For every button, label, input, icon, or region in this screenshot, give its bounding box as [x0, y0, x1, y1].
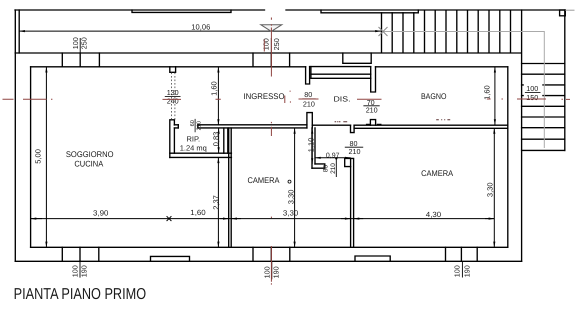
svg-text:1,10: 1,10 [306, 138, 315, 153]
red strike top window label [263, 40, 265, 52]
notch under top wall [170, 67, 176, 73]
svg-text:190: 190 [80, 265, 89, 277]
dimension 1,60 vertical ingresso [217, 67, 219, 125]
svg-text:RIP.: RIP. [186, 135, 200, 144]
svg-text:210: 210 [196, 121, 202, 130]
stub below mid wall [351, 125, 355, 132]
chain arrow left end [31, 218, 42, 220]
svg-text:1.24 mq: 1.24 mq [180, 144, 207, 153]
svg-text:1,60: 1,60 [482, 85, 491, 100]
dashed leader lines rip door 130/240 [171, 73, 175, 120]
gray stair direction line [379, 10, 575, 148]
chain arrows at camera divider [341, 218, 351, 220]
svg-text:DIS.: DIS. [334, 95, 351, 104]
window label 100|250 top mid rotated [262, 38, 282, 53]
svg-text:100: 100 [263, 266, 272, 278]
dis shelf left cap [310, 67, 312, 79]
level triangle marker [261, 25, 282, 32]
top wall window 2 ticks [253, 53, 290, 67]
red-black dash group bagno [436, 119, 450, 121]
dimension 1,60 vertical bagno [494, 67, 496, 125]
camera divider wall [351, 158, 354, 247]
window label 100|250 top left rotated [71, 37, 89, 53]
door label 130/240 [165, 88, 181, 105]
door label 80/210 camera2 door [345, 139, 363, 156]
svg-text:100: 100 [262, 38, 271, 50]
stair window label 100/150 [524, 84, 543, 102]
svg-text:CAMERA: CAMERA [248, 176, 280, 185]
door label 80/210 dis west [302, 90, 315, 108]
red-black dash group door camera [335, 121, 348, 123]
dimension 2,37 vertical [217, 157, 219, 247]
balcony left parapet [15, 10, 19, 53]
svg-text:240: 240 [167, 96, 179, 105]
rip door jamb ticks [178, 125, 198, 128]
svg-text:CAMERA: CAMERA [421, 169, 453, 178]
svg-text:210: 210 [366, 106, 378, 115]
svg-text:PIANTA PIANO PRIMO: PIANTA PIANO PRIMO [14, 286, 147, 303]
door label 60|210 rip rotated [190, 119, 203, 132]
svg-text:1,60: 1,60 [190, 208, 205, 217]
corridor wall v1 [312, 128, 315, 168]
door label 70/210 dis east [363, 98, 379, 115]
balcony recess band right [321, 10, 418, 13]
ingresso door jamb lower [307, 113, 312, 128]
svg-text:BAGNO: BAGNO [421, 92, 447, 101]
svg-text:4,30: 4,30 [426, 210, 441, 219]
chain tick at 169 [167, 216, 172, 221]
bottom wall inner line [31, 246, 508, 248]
svg-text:100: 100 [526, 84, 538, 93]
window label 100|190 bottom right rotated [453, 261, 472, 277]
svg-text:2,37: 2,37 [211, 195, 220, 210]
svg-text:210: 210 [349, 147, 361, 156]
svg-text:210: 210 [330, 163, 337, 174]
svg-text:80: 80 [304, 90, 312, 99]
door label 80|210 corridor rotated [323, 157, 338, 177]
dis shelf band [311, 74, 371, 78]
svg-text:190: 190 [463, 265, 472, 277]
stair right column edges [522, 10, 565, 261]
corridor wall v1 foot [312, 164, 325, 168]
svg-text:150: 150 [526, 93, 538, 102]
camera divider jamb block [345, 158, 351, 166]
svg-text:3,30: 3,30 [287, 190, 296, 205]
svg-text:80: 80 [323, 165, 330, 173]
stair start x mark [379, 27, 388, 36]
mid horizontal wall upper line [174, 124, 507, 126]
rip bottom wall [170, 153, 232, 157]
svg-text:100: 100 [453, 265, 462, 277]
svg-text:190: 190 [272, 266, 281, 278]
balcony top edge line [15, 9, 565, 11]
right wall inner line [507, 67, 509, 248]
small circle mark camera1 [288, 180, 291, 183]
bottom wall window 1 ticks [62, 247, 99, 261]
svg-text:250: 250 [272, 38, 281, 50]
chain arrows at camera1 left wall [220, 218, 229, 220]
left wall [15, 53, 30, 261]
dimension 5,00 vertical [45, 67, 47, 248]
top-right gray tick [565, 9, 574, 11]
bottom wall outer line [15, 260, 521, 262]
bottom wall window 2 ticks [253, 247, 290, 261]
dimension 0,97 horizontal [315, 157, 351, 159]
svg-text:1,60: 1,60 [209, 81, 218, 96]
dimension 1,10 vertical corridor [311, 128, 313, 164]
dimension 10,06 top [19, 30, 381, 32]
top wall window 1 ticks [62, 53, 99, 67]
svg-text:210: 210 [303, 99, 315, 108]
svg-text:5,00: 5,00 [34, 149, 43, 164]
camera1 left wall [229, 128, 232, 247]
rip left wall [170, 120, 175, 158]
dimension 3,30 vertical camera2 [493, 128, 495, 247]
svg-text:3,30: 3,30 [485, 182, 494, 197]
bottom edge step left [151, 256, 190, 261]
red tick ingresso [285, 91, 291, 103]
top-right corner square [560, 10, 566, 16]
dimension chain bottom line [31, 218, 495, 220]
stair right column steps [522, 64, 565, 151]
door width ticks bagno [367, 123, 381, 125]
bagno door bump [370, 120, 375, 126]
svg-text:3,90: 3,90 [93, 209, 108, 218]
mid horizontal wall lower line [174, 127, 507, 129]
chain arrow right end [485, 218, 494, 220]
svg-text:SOGGIORNO: SOGGIORNO [66, 150, 114, 159]
stair risers top run [382, 11, 511, 53]
svg-text:INGRESSO: INGRESSO [244, 92, 285, 101]
red centerline vertical window axis [270, 18, 272, 285]
svg-text:250: 250 [80, 37, 89, 49]
balcony recess band left [132, 10, 231, 12]
svg-text:0,83: 0,83 [211, 132, 220, 147]
bottom edge step right [355, 256, 390, 261]
svg-text:100: 100 [70, 265, 79, 277]
dimension 3,30 vertical camera1 [294, 128, 296, 247]
svg-text:10,06: 10,06 [191, 22, 210, 31]
top wall top line [15, 52, 520, 54]
bottom wall window 3 ticks [446, 247, 478, 261]
svg-text:0,97: 0,97 [326, 152, 340, 159]
rip right wall [224, 128, 228, 153]
entrance recess in top wall [343, 53, 371, 63]
top wall bottom line [31, 66, 508, 68]
window label 100|190 bottom mid rotated [263, 261, 281, 279]
window label 100|190 bottom left rotated [70, 261, 88, 277]
svg-text:CUCINA: CUCINA [74, 160, 103, 169]
ingresso door jamb upper [306, 67, 310, 84]
dimension 0,83 vertical rip [218, 128, 220, 153]
svg-text:3,30: 3,30 [283, 208, 298, 217]
dis right jamb [371, 67, 376, 92]
